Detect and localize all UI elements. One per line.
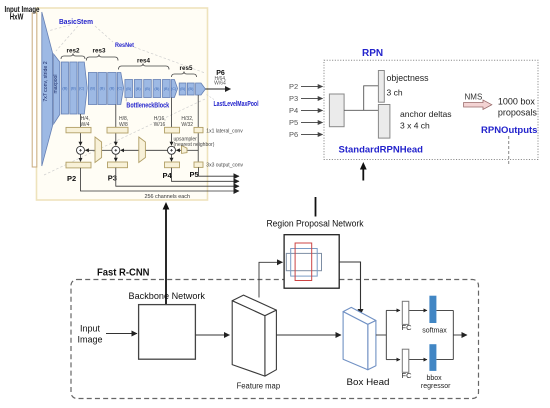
svg-text:HxW: HxW [10, 13, 24, 22]
svg-text:P2: P2 [289, 82, 298, 91]
svg-text:Region Proposal Network: Region Proposal Network [267, 219, 364, 229]
svg-text:(B): (B) [100, 87, 106, 91]
svg-text:RPNOutputs: RPNOutputs [481, 125, 537, 136]
svg-text:256 channels each: 256 channels each [145, 194, 191, 200]
svg-text:StandardRPNHead: StandardRPNHead [339, 145, 424, 156]
svg-text:1000 box: 1000 box [498, 97, 536, 107]
svg-text:bbox: bbox [427, 375, 443, 382]
svg-text:proposals: proposals [498, 108, 538, 118]
svg-text:BasicStem: BasicStem [59, 19, 93, 26]
svg-text:res2: res2 [67, 48, 80, 55]
svg-text:Feature map: Feature map [237, 382, 281, 391]
svg-text:regressor: regressor [421, 383, 451, 390]
svg-text:P5: P5 [190, 170, 199, 179]
svg-text:(nearest neighbor): (nearest neighbor) [174, 142, 215, 148]
svg-text:maxpool: maxpool [53, 75, 59, 94]
svg-text:Backbone Network: Backbone Network [129, 291, 206, 301]
svg-text:(C): (C) [117, 87, 123, 91]
svg-text:W/64: W/64 [214, 81, 226, 87]
svg-text:NMS: NMS [465, 93, 483, 102]
svg-text:3 ch: 3 ch [387, 88, 403, 98]
svg-text:(B): (B) [109, 87, 115, 91]
svg-text:FC: FC [402, 371, 413, 380]
svg-text:(B): (B) [180, 87, 186, 91]
svg-text:P3: P3 [289, 94, 298, 103]
svg-text:(B): (B) [145, 87, 151, 91]
svg-text:(B): (B) [71, 87, 77, 91]
svg-text:W/16: W/16 [154, 122, 166, 128]
svg-text:(B): (B) [126, 87, 132, 91]
svg-text:Fast R-CNN: Fast R-CNN [97, 268, 150, 279]
svg-text:objectness: objectness [387, 73, 430, 83]
svg-text:anchor deltas: anchor deltas [400, 109, 452, 119]
svg-text:7x7 conv, stride 2: 7x7 conv, stride 2 [43, 61, 49, 101]
svg-text:P2: P2 [67, 174, 76, 183]
svg-text:FC: FC [402, 323, 413, 332]
svg-text:P6: P6 [289, 130, 298, 139]
svg-text:BottleneckBlock: BottleneckBlock [126, 102, 169, 109]
svg-text:Image: Image [77, 335, 102, 345]
svg-text:RPN: RPN [362, 48, 383, 59]
svg-text:Input: Input [80, 324, 101, 334]
svg-text:(B): (B) [136, 87, 142, 91]
svg-text:Box Head: Box Head [347, 377, 390, 388]
svg-text:res5: res5 [180, 65, 193, 72]
svg-text:P4: P4 [163, 171, 173, 180]
svg-text:W/8: W/8 [119, 122, 128, 128]
svg-text:(B): (B) [164, 87, 170, 91]
svg-text:P4: P4 [289, 106, 298, 115]
svg-text:LastLevelMaxPool: LastLevelMaxPool [214, 101, 259, 108]
svg-text:(C): (C) [171, 87, 177, 91]
svg-text:(B): (B) [154, 87, 160, 91]
svg-text:3 x 4 ch: 3 x 4 ch [400, 121, 430, 131]
svg-text:3x3 output_conv: 3x3 output_conv [206, 162, 243, 168]
svg-text:ResNet: ResNet [115, 42, 135, 49]
svg-text:(B): (B) [90, 87, 96, 91]
svg-text:W/4: W/4 [81, 122, 90, 128]
svg-text:res4: res4 [137, 57, 150, 64]
svg-text:(B): (B) [62, 87, 68, 91]
svg-text:res3: res3 [93, 48, 106, 55]
svg-text:P5: P5 [289, 118, 298, 127]
svg-text:W/32: W/32 [181, 122, 193, 128]
svg-text:(B): (B) [188, 87, 194, 91]
svg-text:1x1 lateral_conv: 1x1 lateral_conv [206, 129, 243, 135]
svg-text:softmax: softmax [422, 327, 447, 334]
svg-text:(C): (C) [79, 87, 85, 91]
